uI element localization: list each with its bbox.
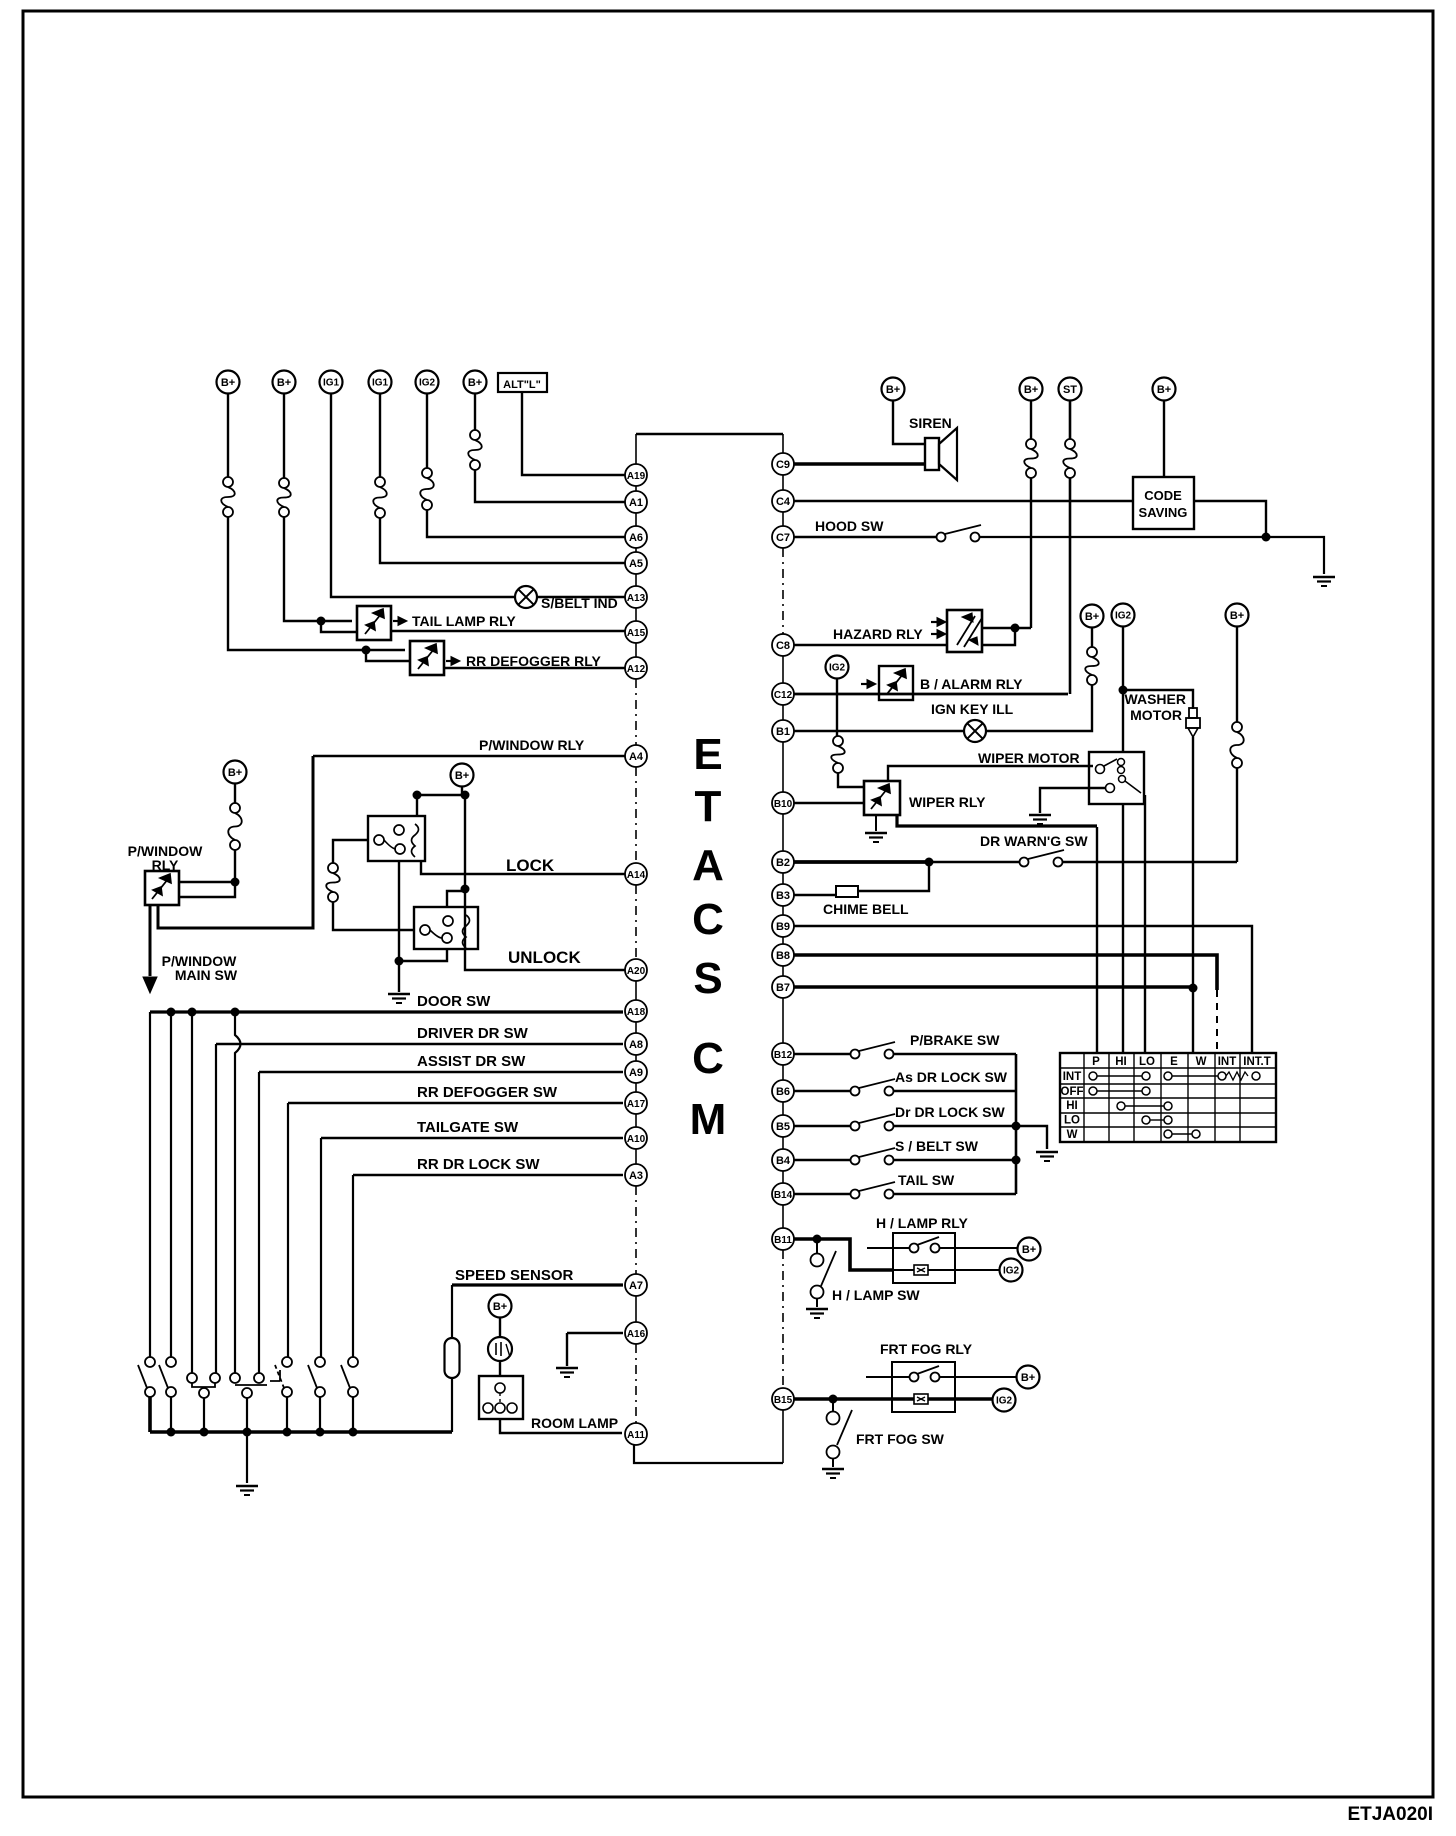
wire INT column dashed <box>1216 990 1218 1053</box>
svg-text:DR WARN'G SW: DR WARN'G SW <box>980 833 1088 849</box>
wire tail lamp rly to A15 <box>391 630 625 632</box>
pin A5 <box>625 552 647 574</box>
ground A16 <box>556 1367 578 1369</box>
wire lock/tail vertical <box>1015 1054 1018 1194</box>
svg-text:B15: B15 <box>774 1395 793 1406</box>
svg-text:B11: B11 <box>774 1235 792 1246</box>
svg-text:M: M <box>690 1095 727 1144</box>
wire RR DR LOCK SW line <box>353 1174 623 1176</box>
svg-text:LOCK: LOCK <box>506 856 555 875</box>
svg-text:RR DEFOGGER SW: RR DEFOGGER SW <box>417 1084 558 1101</box>
svg-text:B9: B9 <box>776 921 790 933</box>
pin C9 <box>772 453 794 475</box>
wire IG2 to wiper rly <box>838 773 864 787</box>
pin A9 <box>625 1061 647 1083</box>
wire B10 to wiper rly <box>794 802 864 804</box>
pin B15 <box>772 1388 794 1410</box>
ground bus <box>150 1397 452 1432</box>
wire B+3 down <box>474 394 476 430</box>
pin C12 <box>772 683 794 705</box>
switch As DR LOCK SW <box>851 1087 860 1096</box>
svg-text:RR DEFOGGER RLY: RR DEFOGGER RLY <box>466 653 601 669</box>
junction chime <box>925 858 934 867</box>
terminal IG2 washer <box>1112 604 1135 627</box>
pin C4 <box>772 490 794 512</box>
relay TAIL LAMP RLY <box>357 606 391 640</box>
relay RR DEFOGGER RLY <box>410 641 444 675</box>
svg-text:IG2: IG2 <box>1115 611 1132 622</box>
wire lamp to B+ mid <box>986 685 1092 731</box>
pin A17 <box>625 1092 647 1114</box>
terminal IG1 2 <box>369 371 392 394</box>
svg-text:E: E <box>1170 1056 1178 1068</box>
wire C4 to code saving <box>794 500 1133 502</box>
pin A18 <box>625 1000 647 1022</box>
terminal IG1 1 <box>320 371 343 394</box>
wire tap sw1 <box>149 1012 151 1357</box>
room lamp bulb <box>488 1337 512 1361</box>
pin A16 <box>625 1322 647 1344</box>
junction fog sw <box>829 1395 838 1404</box>
table row LO contacts <box>1142 1116 1150 1124</box>
switch pair 2 <box>230 1373 240 1383</box>
relay FRT FOG RLY <box>892 1362 955 1412</box>
pin B9 <box>772 915 794 937</box>
wire B12 to switch <box>794 1053 851 1056</box>
svg-text:A17: A17 <box>627 1099 646 1110</box>
wire TAILGATE SW line <box>321 1137 623 1139</box>
wire S/BELT IND to A13 <box>537 596 625 598</box>
junction lock ground <box>395 957 404 966</box>
wire fuse to unlock relay <box>333 902 414 930</box>
wire B7 to W junction <box>794 985 1193 989</box>
wire B15 feed <box>794 1397 1000 1401</box>
terminal B+ 2 <box>273 371 296 394</box>
pin A12 <box>625 657 647 679</box>
svg-text:B+: B+ <box>1022 1244 1036 1256</box>
junction Dr dr lock <box>1012 1122 1021 1131</box>
junction bus <box>283 1428 292 1437</box>
lamp S/BELT IND <box>515 586 537 608</box>
terminal B+ lock <box>451 764 474 787</box>
svg-text:P/WINDOW RLY: P/WINDOW RLY <box>479 737 585 753</box>
wire DOOR SW line <box>150 1010 623 1013</box>
svg-text:HI: HI <box>1115 1056 1127 1068</box>
junction washer <box>1119 686 1128 695</box>
svg-text:B+: B+ <box>886 384 900 396</box>
switch door 1 <box>145 1357 155 1367</box>
relay WIPER RLY <box>864 781 900 815</box>
svg-text:A14: A14 <box>627 870 646 881</box>
terminal IG2 1 <box>416 371 439 394</box>
svg-text:UNLOCK: UNLOCK <box>508 948 581 967</box>
relay H/LAMP RLY <box>893 1233 955 1283</box>
wire S / BELT SW right <box>893 1159 1016 1162</box>
svg-text:P: P <box>1092 1056 1100 1068</box>
terminal B+ p/window <box>224 761 247 784</box>
wire B+ hazard down <box>1030 400 1032 439</box>
svg-text:ST: ST <box>1063 384 1077 396</box>
wire IG2 down <box>836 678 838 736</box>
junction h/lamp sw <box>813 1235 822 1244</box>
pin B7 <box>772 976 794 998</box>
wire IG1-2 to A5 <box>380 518 625 563</box>
svg-text:RLY: RLY <box>152 857 179 873</box>
wire hazard coil return <box>982 628 1015 645</box>
wire rr defogger rly to A12 <box>444 667 625 669</box>
relay B/ALARM RLY <box>879 666 913 700</box>
svg-text:B+: B+ <box>221 377 235 389</box>
switch door 2 <box>166 1357 176 1367</box>
table row OFF contacts <box>1089 1087 1097 1095</box>
svg-text:RR DR LOCK SW: RR DR LOCK SW <box>417 1156 540 1173</box>
terminal ALT"L" <box>498 373 547 392</box>
wire tap sw7 <box>352 1175 354 1357</box>
wire RR defogger coil feed <box>366 650 410 661</box>
table row HI contacts <box>1117 1102 1125 1110</box>
svg-text:C8: C8 <box>776 640 790 652</box>
svg-text:A18: A18 <box>627 1007 646 1018</box>
svg-text:B10: B10 <box>774 799 793 810</box>
fuse B+ wiper <box>1087 647 1097 657</box>
svg-text:ROOM LAMP: ROOM LAMP <box>531 1415 618 1431</box>
svg-text:E: E <box>693 730 722 779</box>
svg-text:TAILGATE SW: TAILGATE SW <box>417 1119 519 1136</box>
wire B+ p/window down <box>234 783 236 803</box>
wire wiper rly to P column <box>897 815 1097 826</box>
wire B+ to dr warn sw <box>1236 768 1238 862</box>
wire LO column <box>1144 795 1146 1053</box>
switch door 6 <box>315 1357 325 1367</box>
arrow hazard 1 <box>931 621 940 623</box>
wire bulb to box <box>499 1361 501 1376</box>
svg-text:C: C <box>692 1034 724 1083</box>
wire P column <box>1096 827 1098 1053</box>
svg-text:MOTOR: MOTOR <box>1130 707 1182 723</box>
fuse IG2 alarm <box>833 736 843 746</box>
svg-text:OFF: OFF <box>1061 1086 1084 1098</box>
wire A16 ground <box>567 1333 623 1366</box>
wire tap sw6 <box>320 1138 322 1357</box>
wire B9 to INT.T column <box>794 926 1252 1053</box>
pin C8 <box>772 634 794 656</box>
terminal B+ 1 <box>217 371 240 394</box>
wire tap sw2 <box>170 1012 172 1357</box>
junction hazard B+ <box>1011 624 1020 633</box>
wire IG1-2 down <box>379 394 381 477</box>
svg-text:SAVING: SAVING <box>1139 505 1188 520</box>
pin A10 <box>625 1127 647 1149</box>
pin A14 <box>625 863 647 885</box>
svg-text:W: W <box>1196 1056 1207 1068</box>
relay door unlock <box>414 907 478 949</box>
wire DRIVER DR SW line <box>216 1043 623 1045</box>
fuse IG2-1 <box>422 468 432 478</box>
pin B10 <box>772 792 794 814</box>
switch TAIL SW <box>851 1190 860 1199</box>
wire p/window coil <box>179 886 235 897</box>
svg-text:WIPER RLY: WIPER RLY <box>909 794 986 810</box>
svg-text:IG1: IG1 <box>323 378 340 389</box>
terminal ST <box>1059 378 1082 401</box>
wire fuse to junction <box>234 850 236 882</box>
svg-text:B3: B3 <box>776 890 790 902</box>
washer motor symbol <box>1189 708 1197 718</box>
svg-text:B+: B+ <box>1021 1372 1035 1384</box>
pin A1 <box>625 491 647 513</box>
wire hazard contact to B+ <box>982 627 1031 629</box>
switch door 7 <box>348 1357 358 1367</box>
wire UNLOCK to A20 <box>465 889 625 970</box>
svg-text:SPEED SENSOR: SPEED SENSOR <box>455 1267 574 1284</box>
svg-text:MAIN SW: MAIN SW <box>175 967 238 983</box>
switch FRT FOG SW <box>832 1399 834 1411</box>
pin A15 <box>625 621 647 643</box>
wire B+ to code saving <box>1163 400 1165 477</box>
svg-text:INT: INT <box>1218 1056 1237 1068</box>
arrow rr defogger rly <box>446 660 454 662</box>
svg-text:B+: B+ <box>228 767 242 779</box>
svg-text:A8: A8 <box>629 1039 643 1051</box>
relay P/WINDOW RLY <box>145 871 179 905</box>
svg-text:ASSIST DR SW: ASSIST DR SW <box>417 1053 526 1070</box>
switch pair 1 <box>187 1373 197 1383</box>
pin B12 <box>772 1043 794 1065</box>
pin B5 <box>772 1115 794 1137</box>
lamp IGN KEY ILL <box>964 720 986 742</box>
h/lamp contact <box>867 1247 910 1249</box>
wire B11 to relay <box>794 1239 893 1270</box>
svg-text:S: S <box>693 954 722 1003</box>
svg-text:W: W <box>1067 1129 1078 1141</box>
wire ST to C12 <box>1069 478 1072 694</box>
svg-text:B2: B2 <box>776 857 790 869</box>
wire HI column <box>1122 804 1124 1053</box>
svg-text:B+: B+ <box>1085 611 1099 623</box>
junction door sw taps <box>167 1008 176 1017</box>
pin A13 <box>625 586 647 608</box>
svg-text:A11: A11 <box>627 1430 645 1441</box>
terminal IG2 alarm <box>826 656 849 679</box>
wire LOCK to A14 <box>421 861 625 874</box>
wire tap sw3L <box>191 1012 193 1373</box>
svg-text:A6: A6 <box>629 532 643 544</box>
h/lamp coil <box>893 1269 1000 1271</box>
svg-text:A15: A15 <box>627 628 646 639</box>
ground table <box>1036 1151 1058 1153</box>
wire A7 speed sensor <box>452 1283 623 1286</box>
svg-text:LO: LO <box>1139 1056 1155 1068</box>
svg-text:B+: B+ <box>455 770 469 782</box>
svg-text:TAIL LAMP RLY: TAIL LAMP RLY <box>412 613 516 629</box>
svg-text:C: C <box>692 895 724 944</box>
terminal B+ h/lamp <box>1018 1238 1041 1261</box>
pin A20 <box>625 959 647 981</box>
svg-text:LO: LO <box>1064 1115 1080 1127</box>
switch S / BELT SW <box>851 1156 860 1165</box>
junction bus <box>243 1428 252 1437</box>
wire tap sw4R <box>258 1072 260 1373</box>
svg-text:WIPER MOTOR: WIPER MOTOR <box>978 750 1080 766</box>
wire tap sw3R <box>215 1044 217 1373</box>
svg-text:A: A <box>692 841 724 890</box>
svg-text:B4: B4 <box>776 1155 791 1167</box>
arrow hazard 2 <box>931 633 940 635</box>
svg-text:B+: B+ <box>277 377 291 389</box>
wire B1 to lamp <box>794 730 964 732</box>
switch door 5 <box>282 1357 292 1367</box>
wire B+ wiper down <box>1091 627 1093 647</box>
pin A19 <box>625 464 647 486</box>
wire TAIL SW right <box>893 1193 1016 1196</box>
wire wiper rly to motor <box>888 766 1093 781</box>
connector column A <box>635 434 637 464</box>
wire tap sw5 <box>287 1103 289 1357</box>
terminal B+ hazard <box>1020 378 1043 401</box>
ground bus symbol <box>236 1485 258 1487</box>
wire C7 hood sw <box>794 536 937 539</box>
wire P/BRAKE SW right <box>893 1053 1016 1056</box>
table row W contacts <box>1164 1130 1172 1138</box>
wire unlock ground <box>399 949 447 961</box>
wire tap sw4L hop <box>235 1012 241 1373</box>
wire IG2-1 down <box>426 394 428 468</box>
wire IG2-1 to A6 <box>427 510 625 537</box>
wire B+ room lamp <box>499 1318 501 1337</box>
pin C7 <box>772 526 794 548</box>
wire B+1 to RR defogger rly <box>228 517 405 650</box>
junction bus <box>316 1428 325 1437</box>
wire B+1 down <box>227 394 229 477</box>
junction hood/code <box>1262 533 1271 542</box>
junction B+2/tail lamp <box>317 617 326 626</box>
ground lock <box>388 993 410 995</box>
pin B6 <box>772 1080 794 1102</box>
svg-text:A20: A20 <box>627 966 646 977</box>
wire fog to B+ <box>939 1376 1017 1378</box>
wire dr warn sw to B+ <box>1062 861 1237 863</box>
terminal B+ fog <box>1017 1366 1040 1389</box>
relay HAZARD RLY <box>947 610 982 652</box>
pin B3 <box>772 884 794 906</box>
table wiper function <box>1060 1053 1276 1142</box>
terminal B+ room lamp <box>489 1295 512 1318</box>
svg-text:DOOR SW: DOOR SW <box>417 993 491 1010</box>
junction bus <box>200 1428 209 1437</box>
wire B+3 to A1 <box>475 470 625 502</box>
svg-text:TAIL SW: TAIL SW <box>898 1172 955 1188</box>
svg-text:B12: B12 <box>774 1050 793 1061</box>
fuse B+1 <box>223 477 233 487</box>
junction bus <box>349 1428 358 1437</box>
svg-text:B7: B7 <box>776 982 790 994</box>
ground wiper motor <box>1029 814 1051 816</box>
wire C9 to siren <box>794 462 925 465</box>
ground h/lamp sw <box>806 1308 828 1310</box>
wire B8 to INT column <box>794 955 1217 990</box>
fuse lock <box>328 863 338 873</box>
svg-text:HAZARD RLY: HAZARD RLY <box>833 626 923 642</box>
svg-text:ETJA020I: ETJA020I <box>1347 1804 1433 1825</box>
svg-text:B / ALARM RLY: B / ALARM RLY <box>920 676 1023 692</box>
wire C8 to hazard rly <box>794 644 947 646</box>
fuse ST <box>1065 439 1075 449</box>
svg-text:Dr DR LOCK SW: Dr DR LOCK SW <box>895 1104 1005 1120</box>
terminal IG2 h/lamp <box>1000 1259 1023 1282</box>
wire B+ lock down <box>464 795 466 889</box>
junction lock tee 2 <box>461 791 470 800</box>
svg-text:B5: B5 <box>776 1121 790 1133</box>
svg-text:IGN KEY ILL: IGN KEY ILL <box>931 701 1014 717</box>
room lamp box <box>479 1376 523 1419</box>
pin B11 <box>772 1228 794 1250</box>
wire B5 to switch <box>794 1125 851 1128</box>
pin B2 <box>772 851 794 873</box>
wire h/lamp to B+ <box>939 1247 1018 1249</box>
svg-text:B+: B+ <box>493 1301 507 1313</box>
svg-text:S / BELT SW: S / BELT SW <box>895 1138 979 1154</box>
svg-text:IG2: IG2 <box>996 1396 1013 1407</box>
svg-text:HOOD SW: HOOD SW <box>815 518 884 534</box>
wire washer to W column <box>1192 737 1194 1053</box>
wire B4 to switch <box>794 1159 851 1162</box>
speed sensor <box>451 1285 453 1338</box>
terminal B+ door warn <box>1226 604 1249 627</box>
wire B+ lock tee <box>417 786 465 816</box>
pin B8 <box>772 944 794 966</box>
wire B3 to chime <box>794 894 836 896</box>
fuse IG1-2 <box>375 477 385 487</box>
ground hood sw <box>1313 576 1335 578</box>
svg-text:A12: A12 <box>627 664 646 675</box>
svg-text:C7: C7 <box>776 532 790 544</box>
switch P/BRAKE SW <box>851 1050 860 1059</box>
svg-text:CHIME BELL: CHIME BELL <box>823 901 909 917</box>
ground wiper rly <box>875 815 877 831</box>
wire unlock top <box>447 891 465 907</box>
wire Dr DR LOCK SW right <box>893 1125 1016 1128</box>
svg-text:FRT FOG RLY: FRT FOG RLY <box>880 1341 973 1357</box>
wire wiper motor ground <box>1040 788 1106 813</box>
svg-text:H / LAMP SW: H / LAMP SW <box>832 1287 920 1303</box>
svg-text:A1: A1 <box>629 497 643 509</box>
wire ETACS top bridge <box>636 433 783 435</box>
wire ALT"L" to A19 <box>522 392 625 475</box>
junction unlock feed <box>461 885 470 894</box>
svg-text:B+: B+ <box>468 377 482 389</box>
wire RR DEFOGGER SW line <box>288 1102 623 1104</box>
wire B6 to switch <box>794 1090 851 1093</box>
svg-text:B+: B+ <box>1157 384 1171 396</box>
fog contact <box>866 1376 910 1378</box>
wire room lamp to A11 <box>500 1419 622 1433</box>
wire lock relay left <box>333 840 368 863</box>
svg-text:A16: A16 <box>627 1329 646 1340</box>
wire C12 to ST <box>794 693 1068 696</box>
svg-text:H / LAMP RLY: H / LAMP RLY <box>876 1215 968 1231</box>
svg-text:IG2: IG2 <box>1003 1266 1020 1277</box>
svg-text:WASHER: WASHER <box>1125 691 1186 707</box>
svg-text:C4: C4 <box>776 496 791 508</box>
wire B2 to junction <box>794 860 929 864</box>
terminal B+ code saving <box>1153 378 1176 401</box>
svg-text:P/BRAKE SW: P/BRAKE SW <box>910 1032 1000 1048</box>
wire IG1-1 to S/BELT IND <box>331 394 515 597</box>
junction B7/W <box>1189 984 1198 993</box>
svg-text:T: T <box>695 782 722 831</box>
svg-text:B1: B1 <box>776 726 790 738</box>
svg-text:C9: C9 <box>776 459 790 471</box>
